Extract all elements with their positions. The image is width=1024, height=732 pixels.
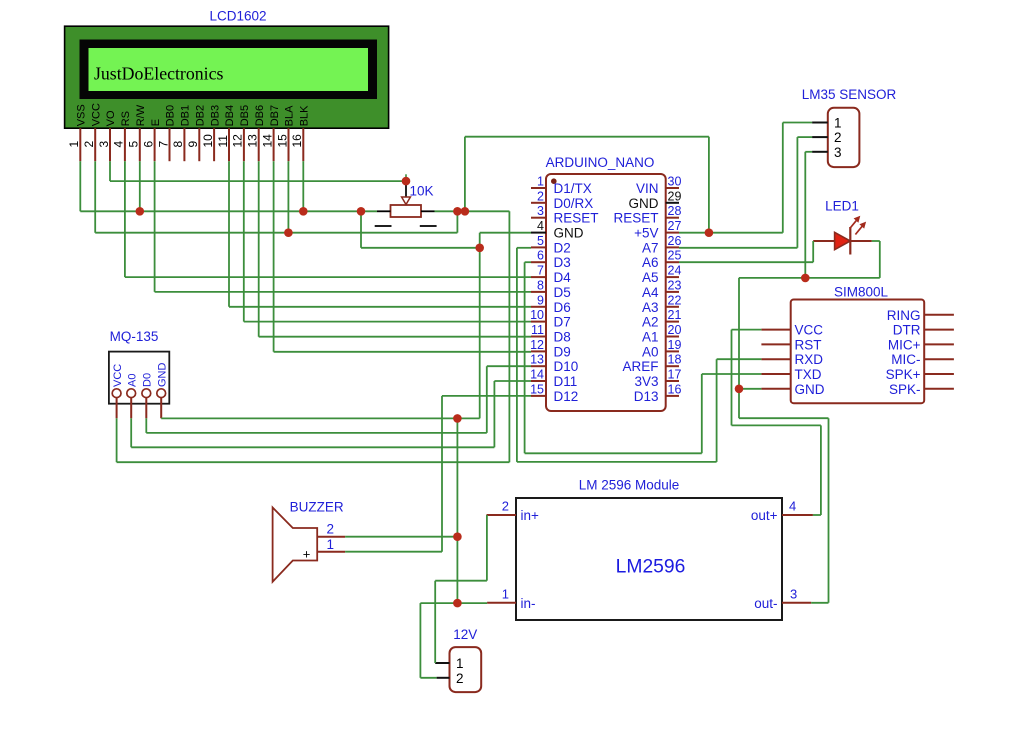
svg-text:10: 10	[530, 308, 544, 322]
svg-text:6: 6	[141, 141, 155, 148]
SIM800L left pin labels	[795, 323, 825, 397]
junction GND at SIM800L	[735, 385, 744, 394]
LM35 pin numbers 1 2 3	[834, 116, 842, 160]
svg-text:DB2: DB2	[195, 105, 207, 126]
svg-text:17: 17	[668, 368, 682, 382]
potentiometer terminal dashes	[375, 211, 437, 226]
svg-text:A2: A2	[642, 315, 659, 330]
svg-text:14: 14	[260, 134, 274, 148]
junction GND at LCD BLK	[299, 207, 308, 216]
svg-text:2: 2	[834, 130, 842, 145]
svg-text:24: 24	[668, 264, 682, 278]
svg-text:18: 18	[668, 353, 682, 367]
junction GND column	[475, 244, 484, 253]
svg-text:19: 19	[668, 338, 682, 352]
svg-text:1: 1	[67, 141, 81, 148]
svg-text:AREF: AREF	[622, 359, 658, 374]
svg-text:A1: A1	[642, 330, 659, 345]
wire net +5V	[95, 123, 812, 463]
svg-text:22: 22	[668, 293, 682, 307]
svg-text:6: 6	[537, 249, 544, 263]
svg-text:+: +	[303, 547, 311, 562]
svg-text:29: 29	[668, 189, 682, 203]
svg-text:R/W: R/W	[135, 104, 147, 126]
svg-text:RING: RING	[887, 308, 921, 323]
svg-text:D10: D10	[554, 359, 579, 374]
buzzer pin stubs	[317, 537, 345, 552]
svg-text:MIC-: MIC-	[891, 352, 920, 367]
svg-text:14: 14	[530, 368, 544, 382]
svg-text:1: 1	[326, 537, 334, 552]
svg-text:5: 5	[537, 234, 544, 248]
svg-text:RST: RST	[795, 337, 822, 352]
svg-text:2: 2	[456, 671, 464, 686]
LM2596 pin numbers	[502, 499, 797, 602]
svg-text:12: 12	[530, 338, 544, 352]
Arduino right pin numbers	[668, 175, 682, 397]
12V connector body	[450, 647, 482, 692]
svg-text:3: 3	[537, 204, 544, 218]
Arduino left pin labels	[554, 181, 599, 404]
svg-text:D4: D4	[554, 270, 572, 285]
MQ-135 pin stubs	[117, 398, 162, 419]
svg-text:1: 1	[456, 656, 464, 671]
12V pin stubs (black)	[435, 663, 449, 678]
wire net 12V+ to in+	[435, 515, 487, 663]
svg-text:4: 4	[537, 219, 544, 233]
junction GND at LCD R/W	[136, 207, 145, 216]
svg-text:13: 13	[530, 353, 544, 367]
svg-text:DTR: DTR	[893, 323, 921, 338]
12V pin numbers 1 2	[456, 656, 464, 686]
svg-text:JustDoElectronics: JustDoElectronics	[94, 64, 223, 84]
svg-text:SIM800L: SIM800L	[834, 285, 889, 300]
svg-text:DB6: DB6	[254, 105, 266, 126]
svg-text:MIC+: MIC+	[888, 337, 921, 352]
svg-text:RS: RS	[120, 111, 132, 126]
svg-text:D5: D5	[554, 285, 571, 300]
svg-text:11: 11	[531, 323, 544, 337]
svg-text:out-: out-	[754, 596, 777, 611]
wire net D3 to TXD	[525, 262, 762, 453]
svg-text:D0/RX: D0/RX	[554, 196, 594, 211]
wire net D12 to buzzer 1	[345, 396, 531, 552]
wire net DB5 to D7	[244, 161, 531, 321]
svg-text:4: 4	[112, 141, 126, 148]
SIM800L left pin stubs	[761, 330, 790, 389]
SIM800L right pin stubs	[924, 315, 954, 389]
potentiometer 10K body	[391, 205, 422, 217]
svg-text:D1/TX: D1/TX	[554, 181, 592, 196]
svg-text:VCC: VCC	[112, 364, 124, 387]
svg-text:15: 15	[530, 382, 544, 396]
LCD1602 display module	[65, 26, 389, 128]
junction +5V at pot right	[453, 207, 462, 216]
svg-text:GND: GND	[629, 196, 659, 211]
svg-text:GND: GND	[795, 382, 825, 397]
junction +5V at Arduino pin27	[705, 228, 714, 237]
svg-text:D12: D12	[554, 389, 579, 404]
svg-text:GND: GND	[156, 363, 168, 388]
svg-text:1: 1	[537, 175, 544, 189]
svg-text:DB7: DB7	[269, 105, 281, 126]
buzzer symbol	[273, 508, 318, 582]
MQ-135 pin circles	[112, 389, 165, 398]
wire net A7 to LM35 pin2	[679, 137, 812, 248]
svg-text:21: 21	[668, 308, 682, 322]
junction +5V at LCD BLA	[284, 228, 293, 237]
svg-text:3: 3	[97, 141, 111, 148]
svg-text:9: 9	[537, 293, 544, 307]
junction GND at pot left	[357, 207, 366, 216]
svg-text:D2: D2	[554, 240, 571, 255]
svg-text:3V3: 3V3	[634, 374, 658, 389]
svg-text:RESET: RESET	[554, 211, 599, 226]
svg-text:A6: A6	[642, 255, 659, 270]
svg-text:9: 9	[186, 141, 200, 148]
svg-text:LM2596: LM2596	[616, 557, 686, 578]
svg-text:D3: D3	[554, 255, 571, 270]
svg-text:12V: 12V	[453, 627, 477, 642]
svg-text:LCD1602: LCD1602	[209, 9, 266, 24]
svg-text:1: 1	[502, 587, 509, 602]
svg-text:RXD: RXD	[795, 352, 824, 367]
svg-text:D0: D0	[142, 373, 154, 387]
Arduino left pin numbers	[530, 175, 544, 397]
svg-text:13: 13	[246, 134, 260, 148]
svg-text:15: 15	[275, 134, 289, 148]
junction VO wiper	[402, 177, 411, 186]
svg-text:30: 30	[668, 175, 682, 189]
svg-text:16: 16	[290, 134, 304, 148]
wire net DB6 to D8	[259, 161, 531, 337]
svg-text:+5V: +5V	[634, 226, 658, 241]
svg-text:3: 3	[790, 587, 797, 602]
svg-text:D9: D9	[554, 344, 571, 359]
svg-text:3: 3	[834, 145, 842, 160]
LCD pin name labels	[76, 103, 311, 126]
svg-text:26: 26	[668, 234, 682, 248]
svg-text:11: 11	[216, 135, 230, 148]
svg-text:A5: A5	[642, 270, 659, 285]
svg-text:DB5: DB5	[239, 105, 251, 126]
svg-text:A4: A4	[642, 285, 659, 300]
svg-text:2: 2	[326, 522, 334, 537]
wire net GND	[80, 152, 880, 678]
svg-text:8: 8	[171, 141, 185, 148]
svg-text:LM 2596 Module: LM 2596 Module	[579, 478, 680, 493]
wire net VO (LCD contrast)	[110, 161, 406, 181]
svg-text:MQ-135: MQ-135	[110, 329, 159, 344]
svg-text:D13: D13	[634, 389, 659, 404]
svg-text:A7: A7	[642, 240, 659, 255]
svg-text:10: 10	[201, 134, 215, 148]
svg-text:in+: in+	[521, 508, 540, 523]
LM35 sensor connector body	[828, 108, 860, 167]
svg-text:28: 28	[668, 204, 682, 218]
svg-text:25: 25	[668, 249, 682, 263]
svg-text:VIN: VIN	[636, 181, 659, 196]
svg-text:8: 8	[537, 278, 544, 292]
junction GND at MQ row	[453, 414, 462, 423]
svg-text:D6: D6	[554, 300, 571, 315]
wire net D2 to RXD	[517, 248, 762, 462]
svg-text:2: 2	[537, 189, 544, 203]
LM35 pin stubs (black)	[812, 123, 828, 152]
svg-text:20: 20	[668, 323, 682, 337]
svg-text:16: 16	[668, 382, 682, 396]
svg-text:10K: 10K	[410, 184, 434, 199]
svg-text:A3: A3	[642, 300, 659, 315]
LCD pin stubs	[80, 128, 303, 161]
svg-text:RESET: RESET	[613, 211, 658, 226]
svg-text:TXD: TXD	[795, 367, 822, 382]
svg-text:23: 23	[668, 278, 682, 292]
Arduino Nano body	[546, 174, 666, 411]
wire net A6 to LED anode	[679, 241, 813, 262]
svg-text:DB1: DB1	[180, 105, 192, 126]
LM2596 pin stubs	[487, 515, 813, 603]
svg-text:27: 27	[668, 219, 682, 233]
svg-text:DB0: DB0	[165, 105, 177, 126]
svg-text:ARDUINO_NANO: ARDUINO_NANO	[546, 155, 655, 170]
SIM800L module body	[791, 300, 925, 404]
svg-text:VSS: VSS	[76, 104, 88, 126]
Arduino right pin stubs 16-30	[666, 188, 679, 396]
potentiometer wiper arrow	[402, 174, 411, 204]
wire net DB7 to D9	[274, 161, 531, 352]
svg-text:DB3: DB3	[209, 105, 221, 126]
wire net RS to D4	[125, 161, 531, 277]
svg-text:7: 7	[156, 141, 170, 148]
wire net DB4 to D6	[229, 161, 531, 307]
svg-text:7: 7	[537, 264, 544, 278]
svg-text:D7: D7	[554, 315, 571, 330]
SIM800L right pin labels	[886, 308, 921, 397]
junction GND at buzzer pin2	[453, 532, 462, 541]
svg-text:A0: A0	[642, 344, 659, 359]
LM2596 pin labels	[521, 508, 778, 611]
svg-text:12: 12	[231, 134, 245, 148]
LED1 diode symbol	[813, 227, 872, 255]
svg-text:1: 1	[834, 116, 842, 131]
svg-text:A0: A0	[126, 374, 138, 387]
junction GND at in-	[453, 599, 462, 608]
wire net E to D5	[155, 161, 531, 292]
svg-text:VO: VO	[105, 110, 117, 126]
svg-text:4: 4	[789, 499, 796, 514]
LCD pin numbers 1-16	[67, 134, 304, 148]
svg-text:LM35 SENSOR: LM35 SENSOR	[802, 87, 897, 102]
MQ-135 pin name labels	[112, 363, 169, 388]
junction GND at LM35 pin3	[801, 274, 810, 283]
svg-text:GND: GND	[554, 226, 584, 241]
svg-text:VCC: VCC	[90, 103, 102, 126]
svg-text:VCC: VCC	[795, 323, 824, 338]
wire net MQ A0 to D11	[131, 381, 531, 447]
svg-text:in-: in-	[521, 596, 536, 611]
svg-text:2: 2	[502, 499, 509, 514]
svg-text:D11: D11	[554, 374, 578, 389]
Arduino right pin labels	[613, 181, 659, 404]
Arduino pin 1 marker dot	[551, 178, 557, 184]
svg-text:E: E	[150, 119, 162, 126]
Arduino left pin stubs 1-15	[531, 188, 546, 396]
svg-text:BLK: BLK	[299, 105, 311, 126]
svg-text:BLA: BLA	[284, 105, 296, 126]
svg-text:BUZZER: BUZZER	[290, 500, 344, 515]
svg-text:SPK+: SPK+	[886, 367, 921, 382]
wire net SIM VCC to out+	[732, 330, 821, 515]
svg-text:5: 5	[127, 141, 141, 148]
junction +5V riser	[461, 207, 470, 216]
svg-text:DB4: DB4	[224, 105, 236, 126]
LED1 emission arrows	[850, 216, 866, 235]
LM2596 buck module body	[516, 498, 782, 620]
svg-text:LED1: LED1	[825, 199, 859, 214]
MQ-135 sensor body	[109, 352, 169, 404]
svg-text:out+: out+	[751, 508, 778, 523]
buzzer pin numbers	[326, 522, 334, 553]
svg-text:D8: D8	[554, 330, 571, 345]
svg-text:2: 2	[82, 141, 96, 148]
wire net MQ D0 to D10	[146, 366, 531, 433]
svg-text:SPK-: SPK-	[889, 382, 921, 397]
